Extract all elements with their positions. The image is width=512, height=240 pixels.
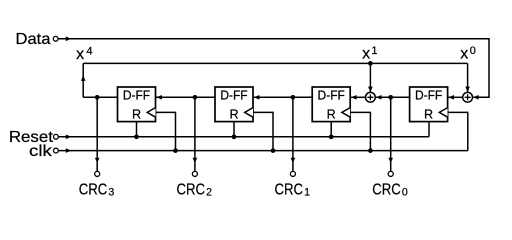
- svg-text:3: 3: [108, 187, 114, 199]
- arrow Reset flow: [66, 135, 72, 140]
- arrow CRC2 out: [193, 158, 198, 164]
- svg-text:CRC: CRC: [275, 182, 304, 199]
- svg-text:R: R: [327, 107, 336, 121]
- node U3 clk junction: [368, 148, 373, 153]
- wire x0 tap drop: [467, 63, 469, 92]
- svg-text:D-FF: D-FF: [415, 89, 443, 103]
- wire CRC1 output drop: [292, 97, 294, 171]
- label x1: [362, 45, 377, 63]
- arrow feedback up: [81, 75, 86, 81]
- wire FF4-to-XOR1 segment: [375, 96, 409, 98]
- arrow CRC1 out: [291, 158, 296, 164]
- svg-text:R: R: [132, 107, 141, 121]
- svg-text:0: 0: [402, 187, 408, 199]
- arrow CRC3 out: [95, 158, 100, 164]
- svg-text:4: 4: [86, 46, 92, 58]
- wire Q line left segment: [83, 96, 117, 98]
- node U2 reset junction: [232, 134, 237, 139]
- arrow into U1 D input: [156, 95, 162, 100]
- svg-text:D-FF: D-FF: [318, 89, 346, 103]
- node U1 reset junction: [134, 134, 139, 139]
- output terminal CRC1: [290, 171, 295, 176]
- arrow x1 into XOR U5: [368, 87, 373, 93]
- label CRC3: [79, 182, 115, 199]
- arrow into U4 D input: [448, 95, 454, 100]
- wire FF3-to-FF2 segment: [253, 96, 312, 98]
- node U3 reset junction: [329, 134, 334, 139]
- svg-text:x: x: [362, 46, 370, 63]
- arrow clk flow: [66, 148, 72, 153]
- label CRC0: [372, 182, 408, 199]
- flip-flop U4 box: [410, 87, 448, 122]
- flip-flop U3 box: [312, 87, 350, 122]
- label x4: [76, 46, 92, 64]
- output terminal CRC0: [388, 171, 393, 176]
- wire feedback horizontal: [83, 62, 467, 64]
- wire FF2-to-FF1 segment: [156, 96, 216, 98]
- svg-text:D-FF: D-FF: [123, 89, 151, 103]
- node CRC2 tap: [193, 95, 198, 100]
- wire CRC0 output drop: [390, 97, 392, 171]
- svg-text:R: R: [229, 107, 238, 121]
- wire U2 clock: [253, 112, 273, 150]
- svg-text:2: 2: [206, 187, 212, 199]
- wire feedback vertical left: [82, 63, 84, 97]
- arrow CRC0 out: [388, 158, 393, 164]
- wire clk line: [58, 150, 468, 152]
- node x1 tap: [368, 61, 373, 66]
- flip-flop U1 box: [118, 87, 156, 122]
- arrow x0 into XOR U6: [465, 87, 470, 93]
- svg-text:D-FF: D-FF: [220, 89, 248, 103]
- wire U3 R drop: [330, 122, 332, 137]
- label CRC2: [177, 182, 213, 199]
- arrow into XOR U5 input: [376, 95, 382, 100]
- input terminal clk: [54, 148, 59, 153]
- svg-text:1: 1: [371, 45, 377, 57]
- input terminal Reset: [54, 134, 59, 139]
- label CRC1: [275, 182, 311, 199]
- arrow Data flow right: [66, 37, 72, 42]
- wire U4 R drop: [428, 122, 430, 137]
- node CRC1 tap: [291, 95, 296, 100]
- node U2 clk junction: [271, 148, 276, 153]
- svg-text:x: x: [460, 46, 468, 63]
- label x0: [460, 45, 476, 63]
- svg-text:CRC: CRC: [177, 182, 206, 199]
- svg-text:0: 0: [470, 45, 476, 57]
- arrow into U3 D input: [351, 95, 357, 100]
- wire CRC2 output drop: [194, 97, 196, 171]
- svg-text:CRC: CRC: [372, 182, 401, 199]
- output terminal CRC3: [95, 171, 100, 176]
- wire U1 clock: [156, 112, 176, 150]
- xor gate U5: [366, 92, 376, 102]
- arrow into U2 D input: [254, 95, 260, 100]
- input terminal Data: [53, 36, 58, 41]
- svg-text:CRC: CRC: [79, 182, 108, 199]
- wire x1 tap drop: [369, 63, 371, 92]
- wire U2 R drop: [233, 122, 235, 137]
- output terminal CRC2: [192, 171, 197, 176]
- svg-text:x: x: [76, 46, 84, 63]
- wire Data top line: [58, 39, 489, 98]
- wire Reset line: [58, 136, 429, 138]
- wire XOR2-to-FF4 segment: [448, 96, 463, 98]
- arrow Data into XOR U6: [473, 95, 479, 100]
- node U1 clk junction: [173, 148, 178, 153]
- svg-text:clk: clk: [29, 143, 53, 160]
- svg-text:Data: Data: [16, 31, 51, 48]
- svg-text:1: 1: [304, 187, 310, 199]
- wire U1 R drop: [136, 122, 138, 137]
- node CRC3 tap: [95, 95, 100, 100]
- flip-flop U2 box: [215, 87, 253, 122]
- wire XOR1-to-FF3 segment: [350, 96, 365, 98]
- xor gate U6: [463, 92, 473, 102]
- svg-text:R: R: [424, 107, 433, 121]
- wire U4 clock: [448, 112, 468, 150]
- wire CRC3 output drop: [96, 97, 98, 171]
- wire U3 clock: [350, 112, 370, 150]
- node CRC0 tap: [388, 95, 393, 100]
